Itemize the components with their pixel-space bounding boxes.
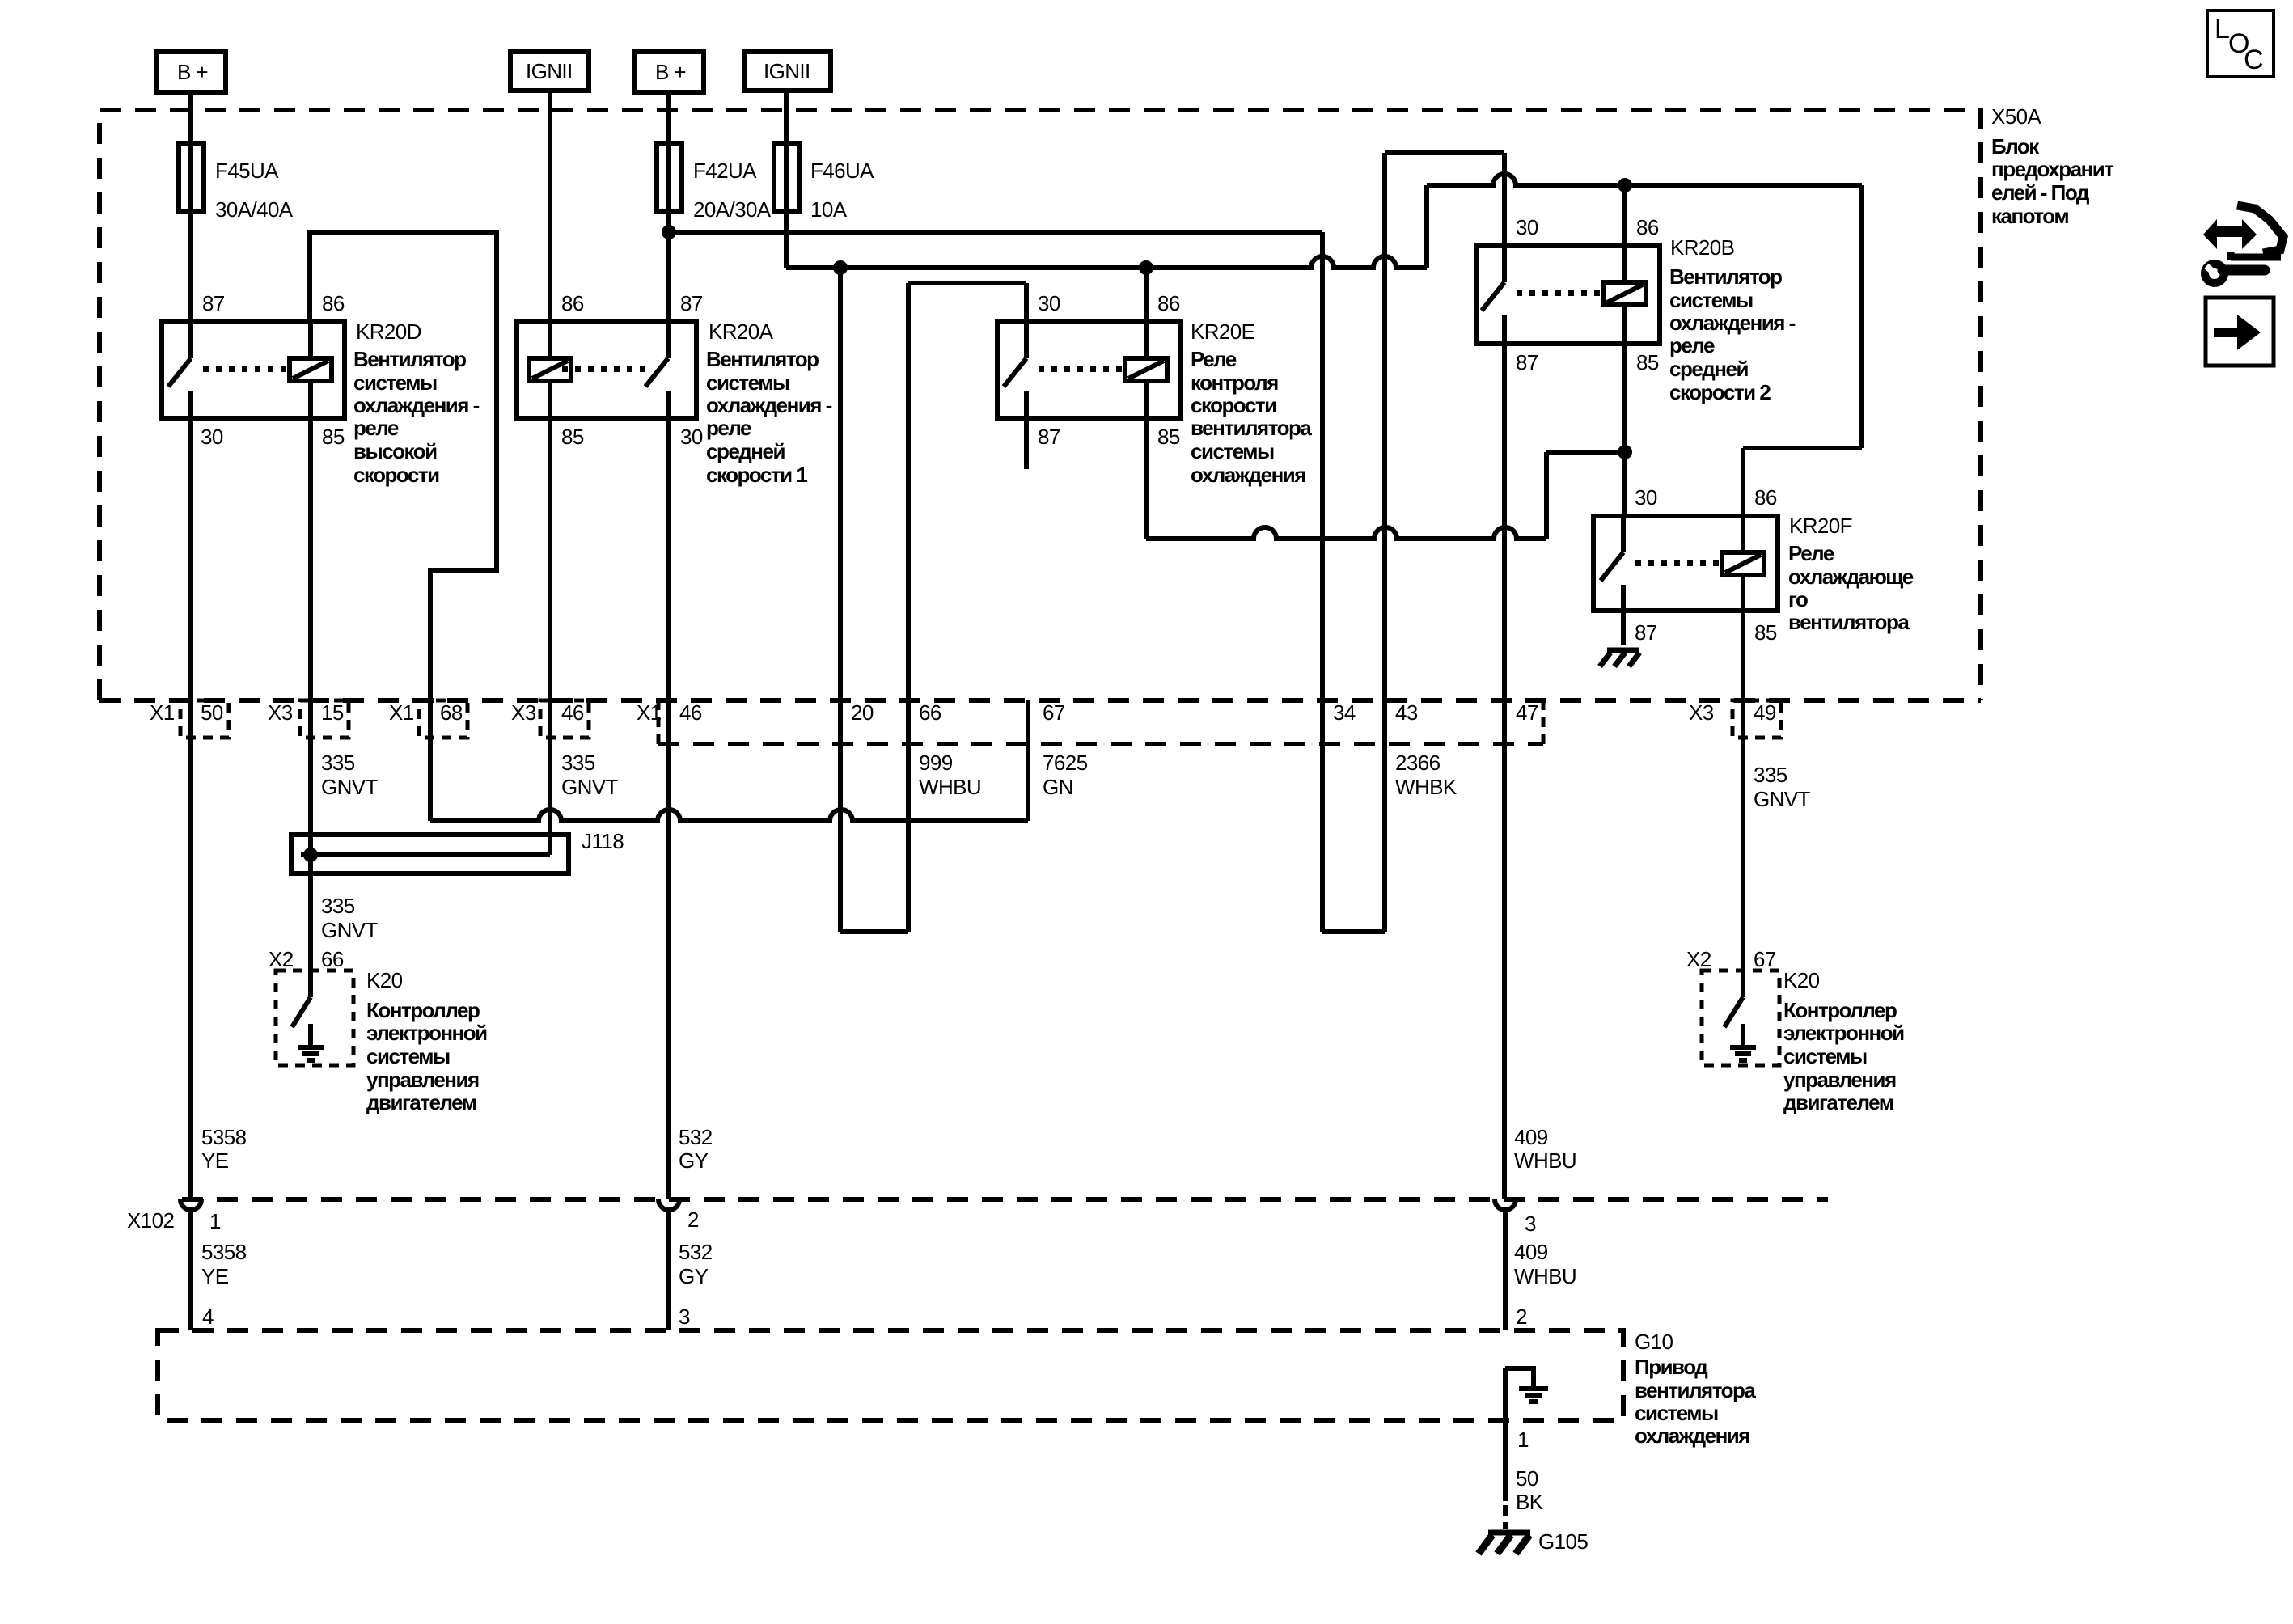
wire H2 from F46UA bbox=[786, 256, 1427, 268]
svg-text:F46UA: F46UA bbox=[810, 159, 874, 183]
power feed box B+ (2) bbox=[635, 52, 704, 92]
svg-text:реле: реле bbox=[1669, 333, 1715, 357]
wire KR20D pin86 loop bbox=[310, 232, 497, 821]
wire KR20B pin30 bracket bbox=[1385, 150, 1504, 155]
connector pin box X1-68 bbox=[419, 700, 467, 738]
svg-text:87: 87 bbox=[680, 291, 703, 315]
relay KR20B bbox=[1476, 246, 1660, 344]
wire B+2 through F42UA to KR20A pin 87 bbox=[666, 92, 671, 322]
svg-text:Реле: Реле bbox=[1788, 541, 1834, 565]
svg-text:86: 86 bbox=[1754, 485, 1777, 510]
junction dot B+2/H1 bbox=[662, 225, 676, 239]
svg-text:Контроллер: Контроллер bbox=[366, 998, 480, 1022]
wire KR20D pin85 to J118 bbox=[308, 418, 313, 855]
svg-text:WHBU: WHBU bbox=[1514, 1264, 1576, 1288]
svg-text:системы: системы bbox=[366, 1044, 450, 1068]
wire X102-3 to G10 bbox=[1503, 1211, 1508, 1330]
svg-text:67: 67 bbox=[1043, 700, 1065, 725]
svg-text:Блок: Блок bbox=[1991, 134, 2040, 159]
connector strip lower dashed line bbox=[658, 742, 1543, 746]
svg-text:электронной: электронной bbox=[1783, 1021, 1904, 1045]
svg-text:K20: K20 bbox=[366, 968, 403, 992]
wire KR20F pin86 riser bbox=[1741, 448, 1745, 516]
svg-text:охлаждающе: охлаждающе bbox=[1788, 565, 1914, 589]
svg-text:335: 335 bbox=[321, 751, 355, 775]
connector X102 cup pin 1 bbox=[180, 1199, 201, 1210]
wire KR20F pin87 stub bbox=[1621, 611, 1626, 645]
svg-text:Вентилятор: Вентилятор bbox=[353, 347, 466, 371]
svg-text:15: 15 bbox=[321, 700, 344, 725]
svg-text:335: 335 bbox=[561, 751, 595, 775]
wire KR20E pin30 stub bbox=[1024, 283, 1029, 322]
fuse F46UA bbox=[774, 143, 799, 212]
connector pin box X1-50 bbox=[180, 700, 229, 738]
wire IGNII1 to KR20A pin 86 bbox=[548, 91, 552, 322]
earth ground in K20 (right) bbox=[1730, 1045, 1756, 1050]
wire jumper loop 34-43 bottom bbox=[1322, 929, 1385, 934]
svg-text:WHBU: WHBU bbox=[1514, 1148, 1576, 1173]
svg-text:50: 50 bbox=[1516, 1466, 1538, 1491]
svg-text:электронной: электронной bbox=[366, 1021, 487, 1045]
splice J118 box bbox=[291, 835, 569, 873]
svg-text:43: 43 bbox=[1395, 700, 1418, 725]
svg-text:системы: системы bbox=[1635, 1401, 1718, 1425]
controller K20 (left) switch bbox=[292, 997, 311, 1027]
svg-text:30: 30 bbox=[1635, 485, 1657, 510]
svg-text:X3: X3 bbox=[268, 700, 293, 725]
splice J118 bus bbox=[301, 852, 550, 857]
svg-text:скорости 2: скорости 2 bbox=[1669, 380, 1771, 404]
svg-text:34: 34 bbox=[1333, 700, 1356, 725]
fuse block X50A dashed border bbox=[99, 110, 1981, 700]
wire H1 drop to pin 34 bbox=[1320, 232, 1325, 932]
fuse F42UA bbox=[657, 143, 682, 212]
wire IGNII2 through F46UA bbox=[784, 91, 789, 268]
wire KR20F85 into K20 right bbox=[1741, 971, 1745, 997]
svg-text:532: 532 bbox=[679, 1125, 713, 1149]
svg-text:GY: GY bbox=[679, 1148, 709, 1173]
svg-text:335: 335 bbox=[321, 894, 355, 918]
svg-text:высокой: высокой bbox=[353, 439, 437, 463]
svg-text:30: 30 bbox=[1038, 291, 1060, 315]
svg-text:409: 409 bbox=[1514, 1125, 1548, 1149]
svg-text:го: го bbox=[1788, 587, 1808, 611]
svg-text:3: 3 bbox=[1525, 1212, 1536, 1236]
connector pin box X3-15 bbox=[300, 700, 349, 738]
svg-text:49: 49 bbox=[1754, 700, 1776, 725]
svg-text:системы: системы bbox=[1191, 439, 1274, 463]
wire KR20B pin87 to X102-3 bbox=[1502, 344, 1507, 1199]
svg-text:85: 85 bbox=[1636, 350, 1659, 374]
svg-text:системы: системы bbox=[353, 370, 437, 395]
svg-text:GN: GN bbox=[1043, 775, 1073, 799]
svg-text:Привод: Привод bbox=[1635, 1355, 1708, 1379]
wire H3 drop right bbox=[1859, 185, 1864, 448]
svg-text:средней: средней bbox=[706, 439, 785, 463]
svg-text:Вентилятор: Вентилятор bbox=[1669, 264, 1782, 289]
svg-text:409: 409 bbox=[1514, 1240, 1548, 1264]
chassis ground G105 bbox=[1488, 1530, 1530, 1536]
wire KR20A pin30 to X102-2 bbox=[666, 418, 671, 1199]
junction dot H3/KR20B-86 bbox=[1618, 178, 1632, 192]
svg-text:87: 87 bbox=[202, 291, 225, 315]
wire H2-H3 riser bbox=[1424, 185, 1429, 268]
LOC legend box bbox=[2207, 11, 2274, 77]
wire KR20E pin85 run bbox=[1146, 527, 1546, 539]
wire KR20B85 to KR20F30 bbox=[1622, 344, 1627, 516]
wire pin67 riser bbox=[1026, 700, 1030, 821]
svg-text:L: L bbox=[2215, 14, 2229, 44]
svg-text:Реле: Реле bbox=[1191, 347, 1237, 371]
wire G10 pin1 below box bbox=[1503, 1368, 1508, 1529]
svg-text:30: 30 bbox=[680, 425, 703, 449]
svg-text:WHBK: WHBK bbox=[1395, 775, 1457, 799]
earth ground in K20 (left) bbox=[298, 1045, 324, 1050]
wire KR20B pin30 drop bbox=[1502, 153, 1507, 246]
svg-text:системы: системы bbox=[1669, 288, 1753, 312]
svg-text:KR20B: KR20B bbox=[1670, 235, 1734, 260]
svg-text:30A/40A: 30A/40A bbox=[215, 197, 294, 222]
svg-text:вентилятора: вентилятора bbox=[1788, 610, 1910, 634]
svg-text:GNVT: GNVT bbox=[321, 775, 379, 799]
svg-text:GNVT: GNVT bbox=[321, 918, 379, 942]
svg-text:скорости: скорости bbox=[353, 463, 439, 487]
svg-text:532: 532 bbox=[679, 1240, 713, 1264]
svg-text:10A: 10A bbox=[810, 197, 848, 222]
wire X102-1 to G10 bbox=[188, 1211, 193, 1330]
junction dot KR20B85/H5 bbox=[1618, 445, 1632, 459]
svg-text:X102: X102 bbox=[127, 1208, 174, 1233]
svg-text:X3: X3 bbox=[1689, 700, 1714, 725]
svg-text:85: 85 bbox=[322, 425, 345, 449]
svg-text:46: 46 bbox=[561, 700, 584, 725]
svg-text:30: 30 bbox=[1516, 215, 1538, 239]
svg-text:скорости: скорости bbox=[1191, 393, 1276, 417]
svg-text:1: 1 bbox=[1517, 1427, 1529, 1452]
svg-text:системы: системы bbox=[1783, 1044, 1867, 1068]
controller K20 (right) dashed box bbox=[1702, 971, 1779, 1065]
relay KR20F bbox=[1593, 516, 1778, 611]
svg-text:охлаждения -: охлаждения - bbox=[353, 393, 480, 417]
svg-text:2: 2 bbox=[1516, 1305, 1527, 1329]
svg-text:YE: YE bbox=[201, 1148, 229, 1173]
wire KR20E pin87 stub bbox=[1024, 418, 1029, 469]
svg-text:85: 85 bbox=[1157, 425, 1180, 449]
svg-text:IGNII: IGNII bbox=[526, 59, 573, 83]
svg-text:KR20E: KR20E bbox=[1191, 319, 1255, 344]
svg-text:X3: X3 bbox=[511, 700, 536, 725]
chassis ground at KR20F pin 87 bbox=[1607, 648, 1639, 653]
svg-text:F45UA: F45UA bbox=[215, 159, 279, 183]
power feed box B+ (1) bbox=[157, 52, 226, 92]
svg-text:5358: 5358 bbox=[201, 1240, 247, 1264]
wire inside G10 to earth bbox=[1505, 1368, 1534, 1386]
svg-text:GY: GY bbox=[679, 1264, 709, 1288]
connector row dashed line bbox=[99, 698, 1981, 703]
svg-text:5358: 5358 bbox=[201, 1125, 247, 1149]
fan drive G10 dashed box bbox=[158, 1330, 1623, 1420]
svg-text:2366: 2366 bbox=[1395, 751, 1441, 775]
svg-text:двигателем: двигателем bbox=[1783, 1090, 1893, 1114]
svg-text:вентилятора: вентилятора bbox=[1191, 416, 1312, 440]
svg-text:86: 86 bbox=[561, 291, 584, 315]
connector pin box X3-49 bbox=[1732, 700, 1781, 738]
svg-text:GNVT: GNVT bbox=[561, 775, 619, 799]
svg-text:KR20A: KR20A bbox=[709, 319, 774, 344]
svg-text:20: 20 bbox=[851, 700, 874, 725]
svg-text:85: 85 bbox=[1754, 620, 1777, 645]
wire KR20A pin85 to J118 bbox=[548, 418, 552, 855]
svg-text:вентилятора: вентилятора bbox=[1635, 1378, 1756, 1402]
svg-text:G10: G10 bbox=[1635, 1330, 1673, 1354]
svg-text:67: 67 bbox=[1754, 947, 1776, 971]
svg-text:Контроллер: Контроллер bbox=[1783, 998, 1897, 1022]
svg-text:87: 87 bbox=[1516, 350, 1538, 374]
svg-text:X1: X1 bbox=[389, 700, 414, 725]
svg-text:YE: YE bbox=[201, 1264, 229, 1288]
svg-text:50: 50 bbox=[201, 700, 223, 725]
connector pin box X3-46 bbox=[540, 700, 589, 738]
power feed box IGNII (2) bbox=[744, 52, 831, 91]
svg-text:1: 1 bbox=[209, 1209, 221, 1233]
svg-text:предохранит: предохранит bbox=[1991, 157, 2114, 181]
wire KR20B pin 86 stub bbox=[1622, 185, 1627, 246]
svg-text:BK: BK bbox=[1516, 1490, 1544, 1514]
svg-text:87: 87 bbox=[1038, 425, 1060, 449]
arrow legend box bbox=[2206, 298, 2274, 366]
controller K20 (right) switch bbox=[1724, 997, 1743, 1027]
svg-text:контроля: контроля bbox=[1191, 370, 1278, 395]
svg-text:66: 66 bbox=[321, 947, 344, 971]
svg-text:X1: X1 bbox=[637, 700, 662, 725]
svg-text:J118: J118 bbox=[582, 829, 624, 853]
svg-text:30: 30 bbox=[201, 425, 223, 449]
wire H1 feed to pin 34 branch bbox=[669, 230, 1322, 235]
wire pin66 riser bbox=[906, 283, 911, 932]
svg-text:капотом: капотом bbox=[1991, 204, 2068, 228]
svg-text:IGNII: IGNII bbox=[764, 59, 810, 83]
svg-text:охлаждения: охлаждения bbox=[1635, 1423, 1749, 1448]
svg-text:66: 66 bbox=[919, 700, 941, 725]
harness routing icon bbox=[2203, 205, 2283, 283]
svg-text:87: 87 bbox=[1635, 620, 1657, 645]
wire pin43 riser bbox=[1382, 153, 1387, 932]
svg-text:20A/30A: 20A/30A bbox=[693, 197, 772, 222]
svg-text:KR20D: KR20D bbox=[356, 319, 421, 344]
svg-text:86: 86 bbox=[1636, 215, 1659, 239]
svg-text:335: 335 bbox=[1754, 763, 1787, 787]
wire H3 upper link bbox=[1427, 174, 1862, 185]
svg-text:WHBU: WHBU bbox=[919, 775, 981, 799]
svg-text:7625: 7625 bbox=[1043, 751, 1088, 775]
connector strip right separator bbox=[1542, 700, 1546, 744]
svg-text:4: 4 bbox=[202, 1305, 214, 1329]
svg-text:C: C bbox=[2244, 44, 2263, 75]
wire B+1 to KR20D pin 87 bbox=[188, 92, 193, 322]
wire J118 to K20 bbox=[308, 855, 313, 997]
svg-text:B +: B + bbox=[655, 60, 686, 84]
relay KR20E bbox=[997, 322, 1181, 418]
power feed box IGNII (1) bbox=[510, 52, 589, 91]
connector X102 cup pin 3 bbox=[1495, 1199, 1516, 1210]
svg-text:86: 86 bbox=[322, 291, 345, 315]
svg-text:46: 46 bbox=[679, 700, 702, 725]
svg-text:999: 999 bbox=[919, 751, 953, 775]
svg-text:K20: K20 bbox=[1783, 968, 1820, 992]
controller K20 (left) dashed box bbox=[276, 971, 353, 1065]
earth ground in G10 bbox=[1519, 1386, 1548, 1391]
svg-text:X2: X2 bbox=[269, 947, 294, 971]
wire pin68 to pin67 link bbox=[430, 810, 1028, 821]
svg-text:2: 2 bbox=[687, 1207, 699, 1232]
junction dot H2/pin20 bbox=[833, 260, 848, 275]
fuse F45UA bbox=[179, 143, 204, 212]
svg-text:G105: G105 bbox=[1538, 1529, 1588, 1554]
wire jumper loop 20-66 bottom bbox=[840, 929, 908, 934]
svg-text:средней: средней bbox=[1669, 357, 1748, 381]
svg-text:KR20F: KR20F bbox=[1789, 514, 1852, 538]
controller K20 (left) ground stub bbox=[308, 1024, 313, 1047]
wire H5 link bbox=[1546, 450, 1625, 455]
controller K20 (right) ground stub bbox=[1741, 1024, 1745, 1047]
svg-text:47: 47 bbox=[1516, 700, 1538, 725]
svg-text:охлаждения: охлаждения bbox=[1191, 463, 1305, 487]
svg-text:F42UA: F42UA bbox=[693, 159, 757, 183]
svg-text:86: 86 bbox=[1157, 291, 1180, 315]
svg-text:реле: реле bbox=[353, 416, 399, 440]
wire KR20E pin86 stub bbox=[1144, 268, 1149, 322]
wire KR20E pin30 bracket bbox=[908, 281, 1026, 285]
connector strip left separator bbox=[657, 700, 661, 744]
svg-text:охлаждения -: охлаждения - bbox=[706, 393, 832, 417]
svg-text:85: 85 bbox=[561, 425, 584, 449]
svg-text:охлаждения -: охлаждения - bbox=[1669, 311, 1796, 335]
svg-text:управления: управления bbox=[1783, 1068, 1896, 1092]
svg-text:реле: реле bbox=[706, 416, 751, 440]
wire X102-2 to G10 bbox=[666, 1211, 671, 1330]
svg-text:елей - Под: елей - Под bbox=[1991, 180, 2090, 205]
relay KR20D bbox=[162, 322, 345, 418]
svg-text:B +: B + bbox=[177, 60, 208, 84]
connector X102 dashed line bbox=[182, 1197, 1828, 1202]
svg-text:Вентилятор: Вентилятор bbox=[706, 347, 819, 371]
wire KR20E pin85 drop bbox=[1144, 418, 1149, 539]
junction dot J118 bbox=[303, 848, 318, 862]
relay KR20A bbox=[517, 322, 696, 418]
svg-text:3: 3 bbox=[679, 1305, 690, 1329]
wire KR20F pin85 to K20 bbox=[1741, 611, 1745, 971]
svg-text:X2: X2 bbox=[1686, 947, 1711, 971]
svg-text:68: 68 bbox=[440, 700, 463, 725]
svg-text:скорости 1: скорости 1 bbox=[706, 463, 807, 487]
svg-text:системы: системы bbox=[706, 370, 789, 395]
wire H5 drop bbox=[1544, 452, 1549, 539]
svg-text:X50A: X50A bbox=[1991, 104, 2041, 129]
wire KR20D pin30 to X102-1 bbox=[188, 418, 193, 1199]
svg-text:GNVT: GNVT bbox=[1754, 787, 1811, 811]
junction dot H2/KR20E-86 bbox=[1139, 260, 1153, 275]
svg-text:X1: X1 bbox=[150, 700, 175, 725]
connector X102 cup pin 2 bbox=[658, 1199, 679, 1210]
wire H4 to KR20F pin 86 bbox=[1743, 446, 1862, 450]
wire pin20 drop bbox=[838, 268, 843, 932]
svg-text:двигателем: двигателем bbox=[366, 1090, 476, 1114]
svg-text:управления: управления bbox=[366, 1068, 479, 1092]
